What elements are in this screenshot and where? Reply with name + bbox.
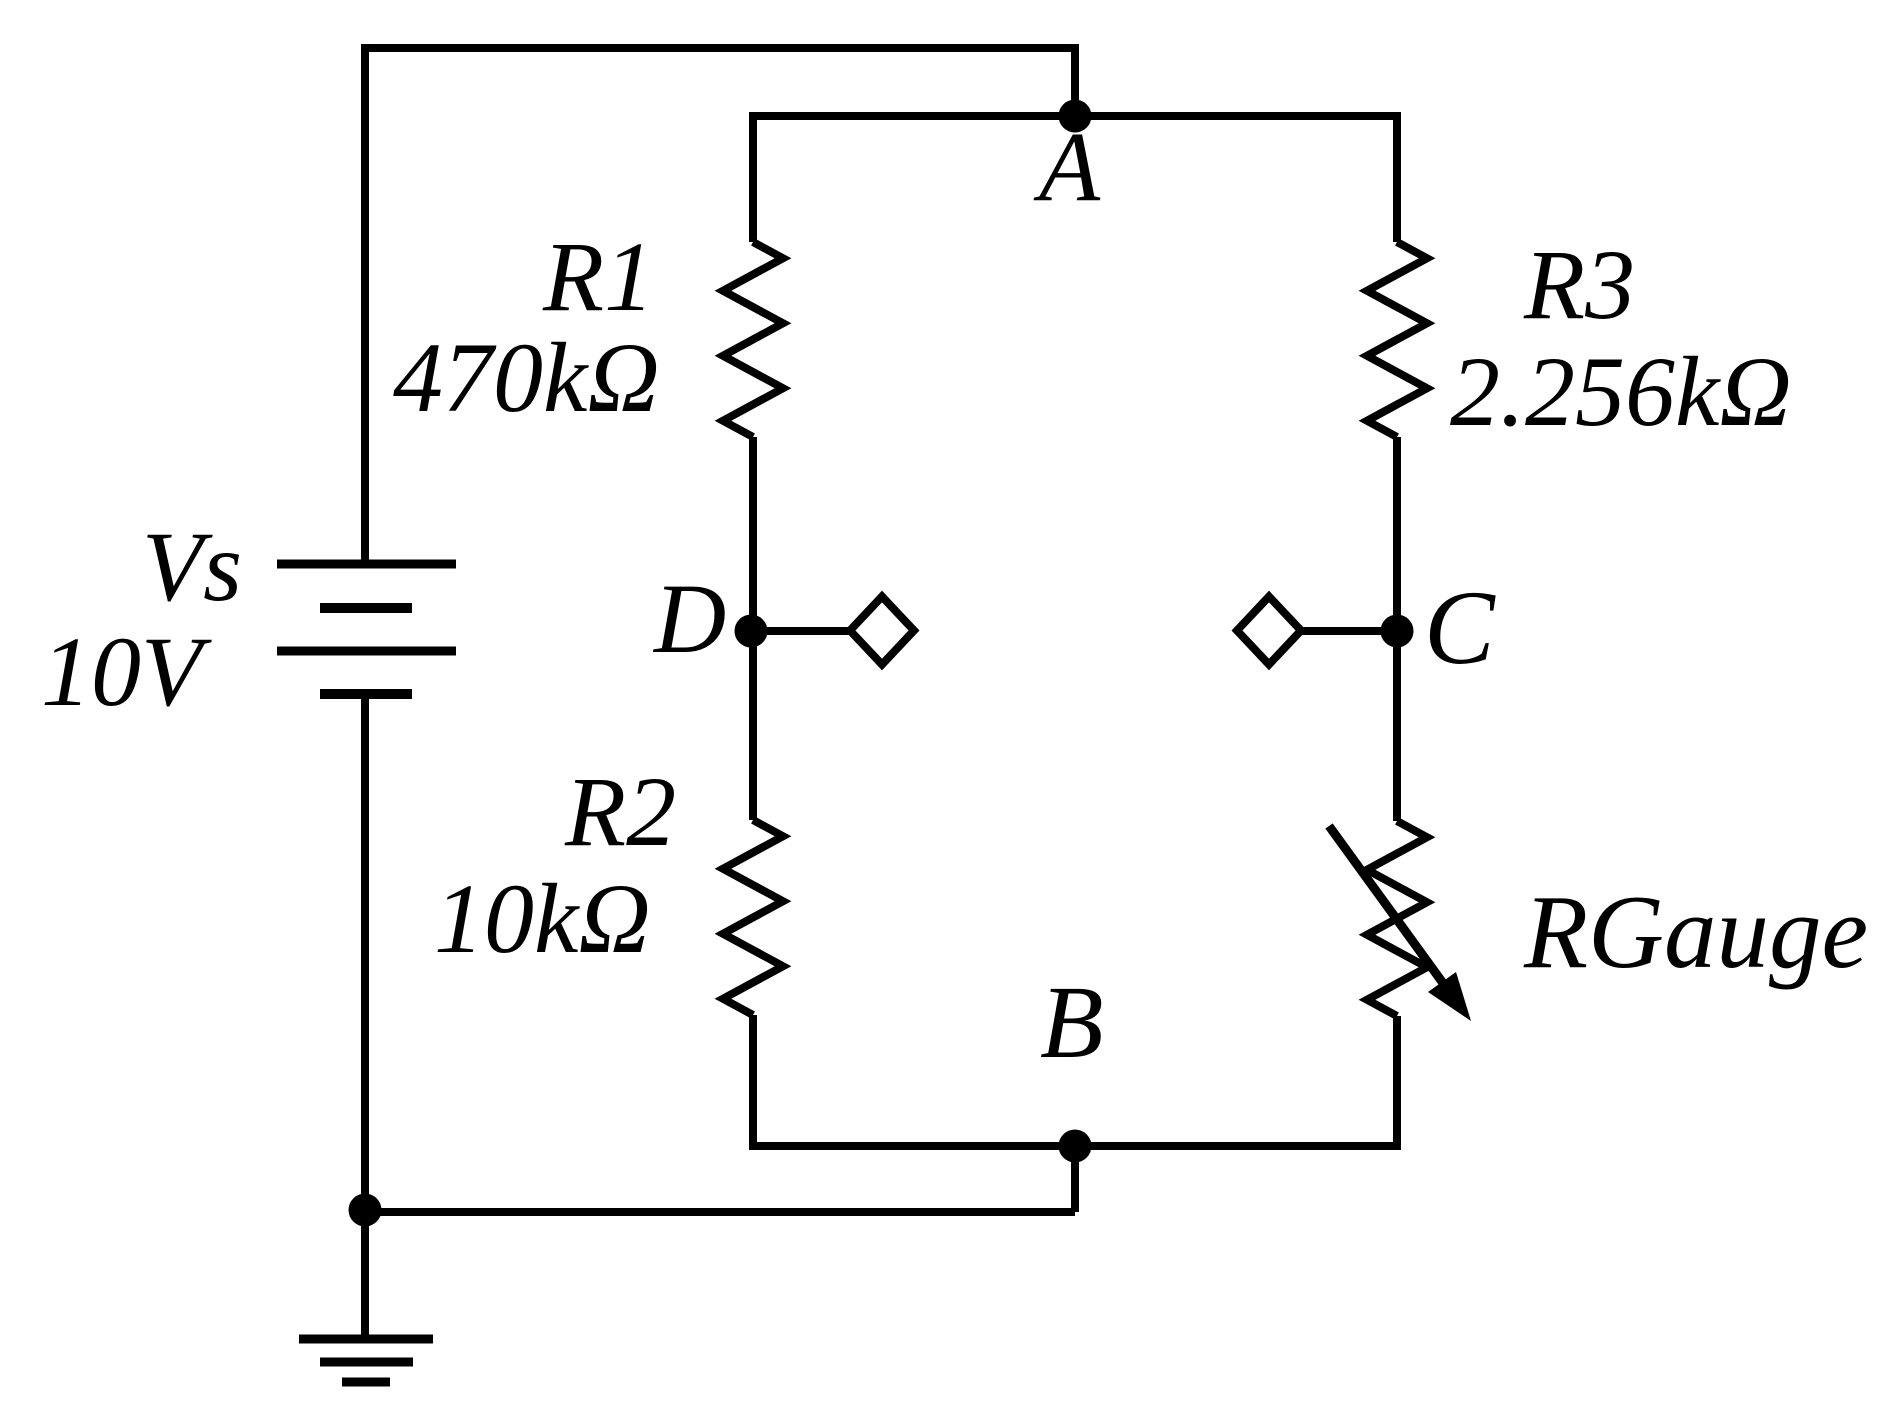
resistor R1 [723,242,783,437]
svg-text:RGauge: RGauge [1523,873,1868,990]
wire tap at node C [1301,627,1397,635]
label node B [1040,965,1104,1080]
wire tap at node D [751,627,850,635]
battery Vs plate short upper [320,603,412,613]
terminal diamond at node D [850,597,914,665]
arrow of variable resistor RGauge [1329,826,1471,1021]
svg-text:470kΩ: 470kΩ [393,322,660,433]
svg-text:D: D [652,563,726,674]
resistor R2 [723,820,783,1015]
terminal diamond at node C [1237,597,1301,665]
ground junction dot [349,1194,382,1227]
battery Vs plate long top [277,560,456,569]
wire R1 top lead [749,112,757,242]
svg-text:A: A [1033,111,1101,222]
label node D [652,563,726,674]
label 470kOhm [393,322,660,433]
resistor R3 [1367,242,1427,437]
svg-text:2.256kΩ: 2.256kΩ [1450,336,1792,447]
wire R2 bottom lead [749,1015,757,1150]
svg-text:B: B [1040,965,1104,1080]
label RGauge [1523,873,1868,990]
node B junction dot [1059,1130,1092,1163]
label Vs [142,511,242,622]
wire R3 top lead [1393,112,1401,242]
svg-text:10V: 10V [41,616,212,727]
svg-text:R3: R3 [1523,229,1635,340]
label R1 [542,221,654,332]
node A junction dot [1059,100,1092,133]
ground bar 1 [299,1335,433,1344]
wire R3 to RGauge through node C [1393,437,1401,821]
label R3 [1523,229,1635,340]
node C junction dot [1381,615,1414,648]
wire R1 to R2 through node D [749,437,757,820]
svg-text:Vs: Vs [142,511,242,622]
label 2.256kOhm [1450,336,1792,447]
svg-text:10kΩ: 10kΩ [434,863,651,974]
node D junction dot [735,615,768,648]
label 10kOhm [434,863,651,974]
svg-text:R2: R2 [564,756,676,867]
resistor RGauge [1367,821,1427,1016]
battery Vs plate short bottom [320,689,412,699]
svg-text:R1: R1 [542,221,654,332]
ground stem [361,1212,369,1339]
wire battery negative [361,694,369,1212]
wire node B row [753,1142,1397,1150]
wire RGauge bottom lead [1393,1016,1401,1150]
wire node A row [753,112,1397,120]
svg-text:C: C [1424,569,1496,686]
wire battery positive to node A [365,48,1075,564]
ground bar 2 [320,1358,413,1367]
battery Vs plate long lower [277,647,456,656]
label node A [1033,111,1101,222]
label node C [1424,569,1496,686]
wire node B to bottom return [1071,1146,1079,1212]
ground bar 3 [342,1378,390,1387]
label 10V [41,616,212,727]
label R2 [564,756,676,867]
wire bottom return [365,1208,1075,1216]
